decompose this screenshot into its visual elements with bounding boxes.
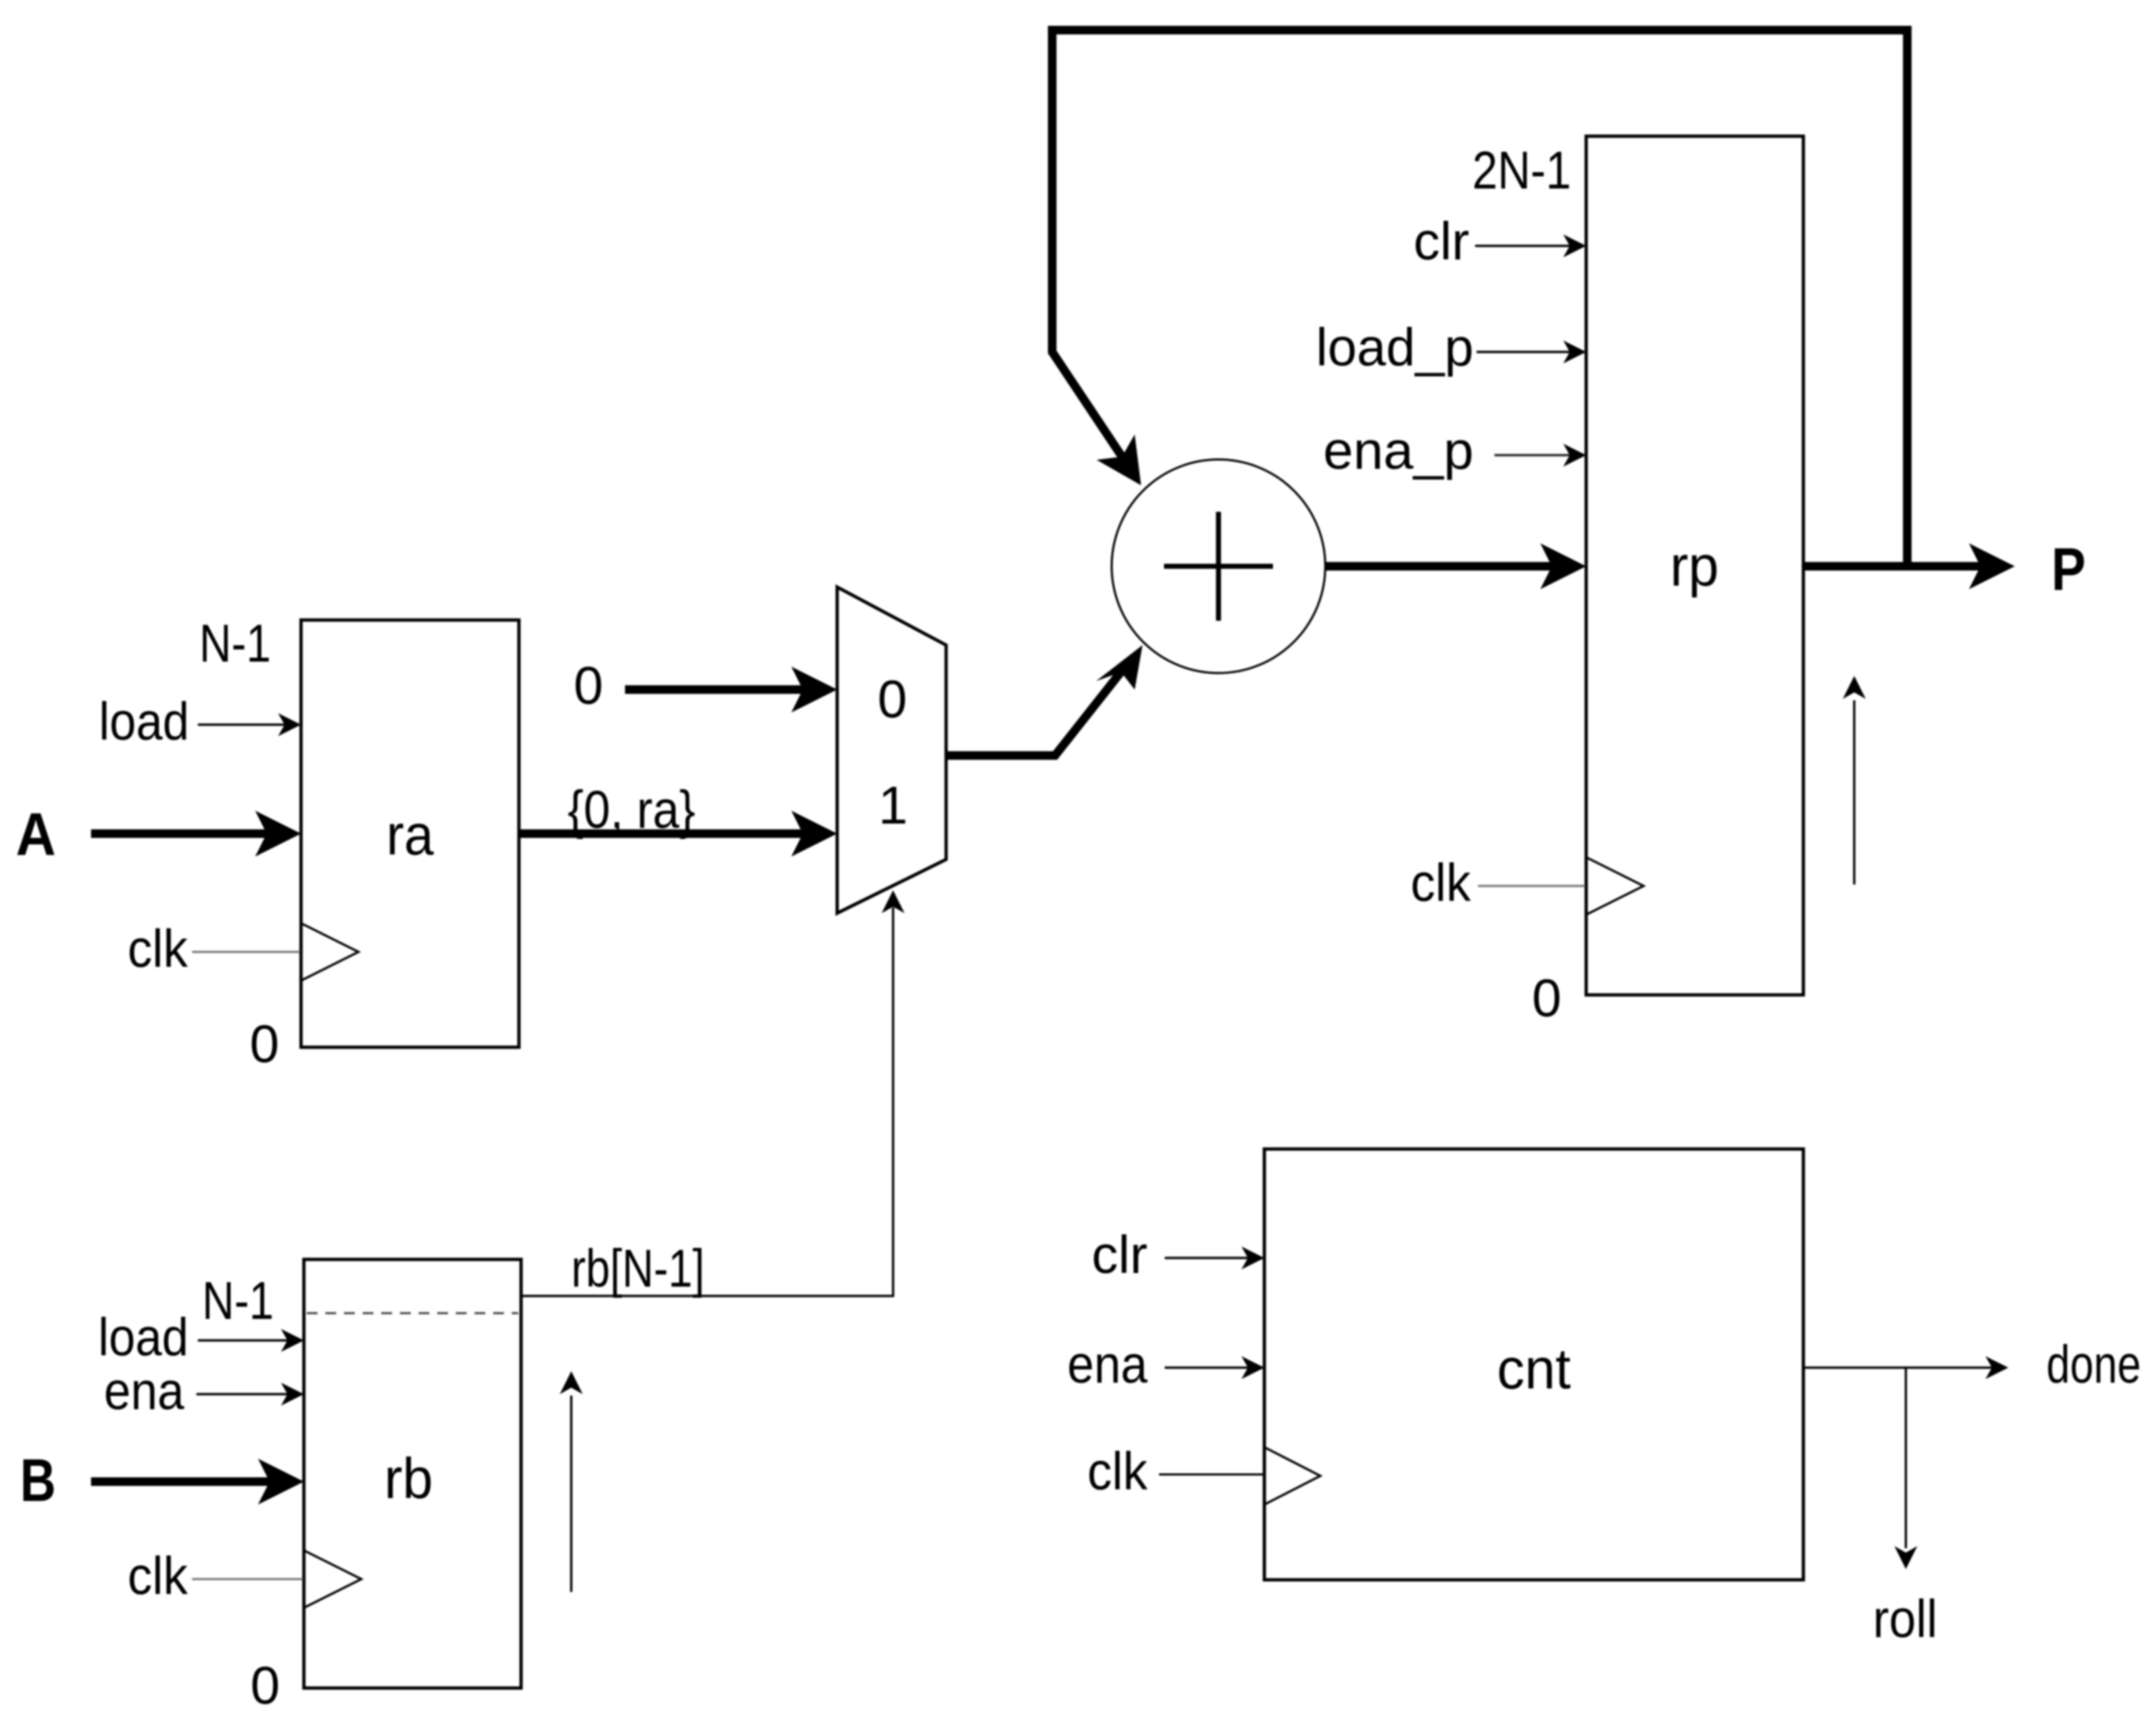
counter cnt xyxy=(1264,1149,1803,1580)
wire clr into cnt (thin) xyxy=(1165,1247,1264,1269)
svg-text:load: load xyxy=(99,692,189,751)
wire load_p into rp (thin) xyxy=(1477,340,1586,363)
svg-text:load: load xyxy=(98,1307,189,1367)
register rb xyxy=(304,1259,521,1688)
shift-up arrow right of rb xyxy=(560,1371,583,1592)
adder U1 xyxy=(1112,459,1325,673)
svg-text:ena: ena xyxy=(1067,1335,1148,1394)
svg-text:{0, ra}: {0, ra} xyxy=(568,780,695,839)
wire done output from cnt (thin) xyxy=(1803,1356,2008,1379)
rb MSB dashed separator xyxy=(307,1312,518,1315)
wire load into ra (thin) xyxy=(198,713,301,736)
svg-text:rb[N-1]: rb[N-1] xyxy=(571,1239,705,1298)
svg-text:0: 0 xyxy=(1532,968,1561,1028)
svg-text:1: 1 xyxy=(878,776,907,835)
wire clk into rb (gray) xyxy=(192,1578,304,1581)
svg-text:ena_p: ena_p xyxy=(1323,421,1474,480)
wire load into rb (thin) xyxy=(198,1329,304,1352)
svg-text:0: 0 xyxy=(249,1014,279,1074)
wire A input (thick) xyxy=(91,811,301,857)
wire ena_p into rp (thin) xyxy=(1494,444,1586,467)
clock triangle cnt xyxy=(1264,1447,1320,1505)
wire clk into cnt (thin) xyxy=(1159,1474,1264,1476)
wire P output from rp (thick) xyxy=(1803,543,2015,589)
wire B input (thick) xyxy=(91,1459,304,1505)
svg-text:0: 0 xyxy=(573,656,603,715)
svg-text:A: A xyxy=(16,801,56,868)
svg-text:0: 0 xyxy=(250,1656,280,1715)
svg-text:done: done xyxy=(2046,1335,2141,1394)
wire clk into rp (gray) xyxy=(1478,885,1586,887)
svg-text:0: 0 xyxy=(877,669,907,729)
mux M1 xyxy=(837,587,946,913)
wire constant 0 into mux (thick) xyxy=(625,667,837,712)
clock triangle rp xyxy=(1586,857,1644,915)
svg-text:clk: clk xyxy=(128,919,189,978)
svg-text:rb: rb xyxy=(384,1446,433,1510)
clock triangle ra xyxy=(301,923,358,981)
wire rb[N-1] to mux select (thin) xyxy=(521,890,905,1296)
register rp xyxy=(1586,136,1803,995)
wire ena into rb (thin) xyxy=(196,1383,304,1406)
wire clr into rp (thin) xyxy=(1475,234,1586,257)
register ra xyxy=(301,620,519,1047)
shift-up arrow right of rp xyxy=(1843,676,1866,885)
svg-text:P: P xyxy=(2051,535,2086,603)
wire {0, ra} from ra to mux (thick) xyxy=(519,811,837,857)
svg-text:clk: clk xyxy=(128,1546,189,1606)
clock triangle rb xyxy=(304,1550,361,1608)
svg-text:clk: clk xyxy=(1087,1441,1148,1501)
svg-text:clk: clk xyxy=(1411,853,1471,912)
svg-text:load_p: load_p xyxy=(1316,318,1474,377)
svg-text:B: B xyxy=(20,1446,56,1514)
wire mux output to adder (thick) xyxy=(946,645,1143,755)
wire feedback from P to adder (thick) xyxy=(1052,30,1907,566)
svg-text:clr: clr xyxy=(1092,1225,1148,1284)
wire adder output to rp (thick) xyxy=(1325,543,1586,589)
svg-text:ena: ena xyxy=(104,1361,185,1421)
svg-text:clr: clr xyxy=(1413,211,1469,271)
svg-text:2N-1: 2N-1 xyxy=(1472,140,1571,200)
svg-text:cnt: cnt xyxy=(1497,1337,1571,1401)
wire clk into ra (gray) xyxy=(192,951,301,953)
svg-text:roll: roll xyxy=(1873,1589,1937,1649)
svg-text:N-1: N-1 xyxy=(202,1271,274,1330)
wire roll branch down (thin) xyxy=(1894,1368,1917,1569)
svg-text:ra: ra xyxy=(386,803,434,867)
svg-text:N-1: N-1 xyxy=(199,614,271,673)
svg-text:rp: rp xyxy=(1670,534,1719,598)
wire ena into cnt (thin) xyxy=(1165,1356,1264,1379)
